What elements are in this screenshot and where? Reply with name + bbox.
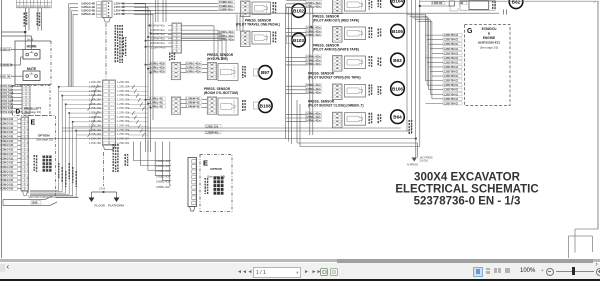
label rotated wire names on drops [58,163,77,187]
svg-text:0.5RrL-4Gb: 0.5RrL-4Gb [150,70,165,74]
svg-text:0.85BL-4Gb: 0.85BL-4Gb [156,159,171,163]
svg-text:1.25B-7B4 G1: 1.25B-7B4 G1 [444,75,460,78]
svg-text:1.25Y-4B: 1.25Y-4B [114,5,125,9]
wire chain drops L1 to L2 [237,15,243,32]
sensor R0 top (cut) [286,0,381,14]
svg-text:1.0RrL-4G: 1.0RrL-4G [150,105,163,109]
svg-text:2B: 2B [460,3,463,5]
svg-text:1.25B-7B4 G1: 1.25B-7B4 G1 [444,80,460,83]
svg-text:0.5RrL-4Gn: 0.5RrL-4Gn [306,115,321,119]
connector CN-B strip [97,1,113,22]
horn-mute enclosure [15,41,51,85]
label PRESS. SENSOR (BOOM CYL.BOTTOM) [204,87,238,95]
label ECM/DCU & ENGINE [478,27,500,50]
svg-text:1.25B-1B4: 1.25B-1B4 [117,141,130,145]
wire G comb spine verticals [426,15,432,99]
svg-text:0.5BR-4Gn: 0.5BR-4Gn [219,7,233,11]
svg-text:B103: B103 [293,38,304,43]
slider zoom [556,270,594,273]
button scroll left [0,264,5,272]
svg-text:1.25Y-4B: 1.25Y-4B [114,2,125,6]
svg-text:1.25B-1B4: 1.25B-1B4 [89,119,102,123]
svg-text:ENGINE: ENGINE [483,36,495,40]
svg-text:0.5W-C4 1B: 0.5W-C4 1B [1,149,14,152]
wire drop to press sensor note [416,139,418,158]
svg-text:0.5RrL-4Gb: 0.5RrL-4Gb [150,62,165,66]
svg-text:0.5RrW-4Gn: 0.5RrW-4Gn [151,41,166,45]
sensor R4 PILOT BUCKET CLOSE [286,111,381,127]
label PRESS. SENSOR (PILOT BUCKET OPEN)(NO TAPE) [308,72,361,80]
svg-text:1.25Y-4B: 1.25Y-4B [114,12,125,16]
box E OPTION right [200,155,232,212]
button view facing [493,267,502,275]
svg-text:0.5W-C4 1B: 0.5W-C4 1B [1,183,14,186]
connector E pin strip [21,117,29,191]
label PRESS. SENSOR (PILOT BUCKET CLOSE)(GREEN T) [308,100,364,108]
sensor R2 PILOT ARM IN [286,55,381,71]
wire right column bus verticals [286,4,313,144]
svg-text:0.5RrL-4Gn: 0.5RrL-4Gn [306,87,321,91]
wire right bus verticals [407,0,420,147]
svg-text:1.25BR-4Gb: 1.25BR-4Gb [206,131,220,134]
svg-text:1.25B-1B4: 1.25B-1B4 [89,80,102,84]
wire staircase to connector E right [133,142,171,186]
svg-text:0.5YG C4A: 0.5YG C4A [1,85,13,88]
wire nested bus bottom lines [2,128,420,147]
svg-text:0.5RrW-4Gn: 0.5RrW-4Gn [151,32,166,36]
svg-text:(PILOT BUCKET CLOSE) (GREEN..T: (PILOT BUCKET CLOSE) (GREEN..T) [308,104,364,108]
box D KNOB.LEFT [13,86,51,116]
wire G bundle to bus [407,15,432,22]
svg-text:0.5RrL-4Gn: 0.5RrL-4Gn [306,83,321,87]
svg-text:OPTION: OPTION [38,134,50,138]
wire nested bus left verticals [297,100,300,147]
svg-text:0.5YG C4A: 0.5YG C4A [1,96,13,99]
sensor PRESS SENSOR BOOM CYL BOTTOM [146,97,246,115]
svg-text:0.5YG C4A: 0.5YG C4A [1,111,13,114]
svg-text:1.25B-1B4: 1.25B-1B4 [89,102,102,106]
terminal B108 [259,99,273,113]
svg-text:1.25B-1B4: 1.25B-1B4 [89,132,102,136]
sensor PRESS SENSOR HYD FILTER [146,62,246,81]
svg-text:E: E [31,120,36,127]
svg-text:0.5RrL-4Gn: 0.5RrL-4Gn [219,37,234,41]
svg-text:1.0RrL-4G: 1.0RrL-4G [150,97,163,101]
ground FLOOR [89,198,106,208]
svg-text:0.85BL-4Gb: 0.85BL-4Gb [156,185,171,189]
svg-text:0.5W-C4 1B: 0.5W-C4 1B [1,157,14,160]
button zoom out [541,268,544,274]
svg-text:0.85GG-4B: 0.85GG-4B [81,9,95,13]
svg-text:D: D [16,109,21,116]
wire page left border [1,0,3,258]
svg-text:1.0RrW-4G: 1.0RrW-4G [186,105,200,109]
svg-text:1.0RrL-4G: 1.0RrL-4G [150,101,163,105]
wire to horn from left edge [2,31,26,33]
svg-text:0.5 B: 0.5 B [99,187,105,191]
wire to B62 connector [420,5,449,7]
terminal B97 [258,66,272,80]
svg-text:1.25B-1B4: 1.25B-1B4 [89,106,102,110]
scrollbar horizontal [0,259,600,262]
svg-text:0.85GG-4B: 0.85GG-4B [81,12,95,16]
svg-text:1.25B-1B4: 1.25B-1B4 [117,119,130,123]
label CN-B left wire names [69,2,96,17]
svg-text:1.25B-1B4: 1.25B-1B4 [117,132,130,136]
node junction press feed [415,138,417,140]
label wire 0.85L 5B [0,75,11,78]
label CN-C left wire names [89,80,102,145]
svg-text:B63: B63 [393,58,402,63]
svg-text:1.25B-1B4: 1.25B-1B4 [117,89,130,93]
svg-text:(See page 3/3): (See page 3/3) [24,110,41,114]
label PRESS. SENSOR (HYD.FILTER) [207,53,234,61]
svg-text:0.5W-C4 1B: 0.5W-C4 1B [1,144,14,147]
svg-text:1.25B-7B4 G1: 1.25B-7B4 G1 [444,52,460,55]
svg-text:0.5BR-4Gn: 0.5BR-4Gn [219,0,233,4]
svg-text:FLOOR: FLOOR [95,204,106,208]
wire frame corner bottom-right [569,229,599,258]
svg-text:1.25B-1B4: 1.25B-1B4 [117,106,130,110]
box E OPTION left [28,116,56,198]
wire mute terminal [11,75,23,77]
wire top border feed [420,0,598,2]
svg-text:1.25B-1B4: 1.25B-1B4 [117,102,130,106]
svg-text:1.25B-7B4 G1: 1.25B-7B4 G1 [444,57,460,60]
connector CN-A top-left [16,0,51,8]
svg-text:B62: B62 [512,0,521,5]
svg-text:0.5W-C4 1B: 0.5W-C4 1B [1,131,14,134]
svg-text:(PILOT ARM OUT) (RED TAPE): (PILOT ARM OUT) (RED TAPE) [313,19,359,23]
svg-text:0.85BL-4Gb: 0.85BL-4Gb [156,164,171,168]
svg-text:(PILOT BUCKET OPEN) (NO TAPE): (PILOT BUCKET OPEN) (NO TAPE) [308,76,361,80]
label harness callout rotated text [115,25,127,63]
connector D-side labels [0,85,22,114]
ground PLATFORM [108,198,125,208]
svg-text:0.5W-C4 1B: 0.5W-C4 1B [1,166,14,169]
svg-text:HORN: HORN [27,45,37,49]
label CN-D wire rows [145,24,172,50]
svg-text:1.25B-7B4 G1: 1.25B-7B4 G1 [444,102,460,105]
mute inner box [23,71,40,81]
label G wire rows [426,34,463,106]
svg-text:0.5W-C4 1B: 0.5W-C4 1B [1,175,14,178]
svg-text:1.25B-1B4: 1.25B-1B4 [89,124,102,128]
svg-text:0.5RrW-4Gn: 0.5RrW-4Gn [151,24,166,28]
wire page right border [597,1,599,229]
svg-text:0.85BL-4Gb: 0.85BL-4Gb [156,169,171,173]
wire CN-D right bends [182,26,227,60]
label SAE J1939 rotated [34,155,35,157]
svg-text:0.5RrW-4Gn: 0.5RrW-4Gn [151,37,166,41]
label rotated 32C 2B4 [492,1,493,3]
connector small B62 chain [449,1,458,11]
svg-text:B106: B106 [392,86,403,91]
sensor R3 PILOT BUCKET OPEN [286,83,381,99]
wire feeds L3 L4 taps [145,64,152,109]
wire crossing slashes right [128,85,148,137]
svg-text:1.25B-1B4: 1.25B-1B4 [117,93,130,97]
svg-text:0.5YG C4A: 0.5YG C4A [1,107,13,110]
label wire 0.85B 5A [0,48,11,51]
button prev page [248,269,253,275]
svg-text:0.85BW 5B: 0.85BW 5B [1,65,13,67]
label wire 0.85R-Y5 (rotated) [24,13,41,27]
wire junction drops into horn [24,32,26,50]
sensor PRESS SENSOR PILOT TRAVEL ONE PEDAL [219,0,277,16]
wire vertical drops to labels [30,87,76,197]
svg-text:0.5W-C4 1B: 0.5W-C4 1B [1,127,14,130]
svg-text:0.5RrL-4Gn: 0.5RrL-4Gn [306,62,321,66]
svg-text:0.5YG C4A: 0.5YG C4A [1,100,13,103]
svg-text:0.5RrL-4Gn: 0.5RrL-4Gn [306,119,321,123]
svg-text:1.25B-1B4: 1.25B-1B4 [89,85,102,89]
label 1.25BL-C2b [205,125,221,135]
sensor PRESS SENSOR 2 [219,30,277,46]
svg-text:OPTION: OPTION [210,167,222,171]
wire dash-dot drop to ground [103,152,105,186]
svg-text:1.0RrW-4G: 1.0RrW-4G [186,101,200,105]
svg-text:0.85B 5A: 0.85B 5A [1,48,11,51]
svg-text:1.25B-1B4: 1.25B-1B4 [117,124,130,128]
sensor R1 PILOT ARM OUT [286,26,381,42]
svg-text:1.25B-7B4 G1: 1.25B-7B4 G1 [444,48,460,51]
harness bracket 13HB [3,196,57,206]
svg-text:0.85BL-4Gb: 0.85BL-4Gb [156,174,171,178]
svg-text:0.5RrL-4Gn: 0.5RrL-4Gn [219,34,234,38]
svg-text:0.5W-C4 1B: 0.5W-C4 1B [1,162,14,165]
svg-text:0.5RrL-4Gn: 0.5RrL-4Gn [306,55,321,59]
button rotate ccw [320,268,328,276]
input page number [253,267,301,278]
svg-text:1.25B-7B4 G1: 1.25B-7B4 G1 [444,71,460,74]
terminal B102 [292,4,306,18]
scrollbar vertical arrow [592,1,597,8]
svg-text:(PILOT ARM IN) (WHITE TAPE): (PILOT ARM IN) (WHITE TAPE) [313,48,359,52]
node junction horn feed [24,31,26,33]
svg-text:2/3 (5V): 2/3 (5V) [420,160,429,163]
label CN-B right wire names [114,2,154,17]
wire long feed line [155,12,499,14]
svg-text:1.25B-1B4: 1.25B-1B4 [117,85,130,89]
svg-text:0.5RrL-4Gn: 0.5RrL-4Gn [306,111,321,115]
label rotated OK-PA [205,178,206,180]
connector CN-D left [172,23,182,53]
svg-text:(PILOT TRAVEL ONE PEDAL): (PILOT TRAVEL ONE PEDAL) [236,23,280,27]
svg-text:1.25B-1B4: 1.25B-1B4 [89,111,102,115]
wire verticals right of CN-B [156,0,159,22]
connector D pin strip [22,85,30,114]
wire bus verticals from CN-B [69,4,74,87]
wire central bus verticals [146,4,154,152]
svg-text:1.25RrY-4Gn: 1.25RrY-4Gn [151,46,167,50]
svg-text:0.5RrL-4Gn: 0.5RrL-4Gn [186,62,201,66]
svg-text:5A 5B: 5A 5B [27,39,34,42]
connector CN-C tail [103,145,116,150]
svg-text:1.25B-1B4: 1.25B-1B4 [117,80,130,84]
button rotate cw [330,268,338,276]
svg-text:0.5W-C4 1B: 0.5W-C4 1B [1,140,14,143]
svg-text:1.25BL-C2b: 1.25BL-C2b [206,126,219,128]
svg-text:1.25Y-4B: 1.25Y-4B [114,9,125,13]
connector pin grid icon E [43,156,52,172]
label wire 1.0B6 GB [432,2,446,5]
wire harness from CN-A [26,8,42,31]
svg-text:0.85GG-4B: 0.85GG-4B [81,5,95,9]
svg-text:300X4 EXCAVATOR: 300X4 EXCAVATOR [414,172,521,184]
wire hatch marks [504,10,507,15]
svg-text:0.85GG-4B: 0.85GG-4B [81,2,95,6]
label rotated 0.5B bottom right [409,120,410,122]
svg-text:B102: B102 [293,8,304,13]
button first page [237,269,247,275]
wire bus rows to vertical drops [58,86,103,135]
svg-text:MUTE: MUTE [27,67,37,71]
svg-text:ELECTRICAL SCHEMATIC: ELECTRICAL SCHEMATIC [395,184,538,196]
svg-text:B64: B64 [393,115,402,120]
svg-text:0.5W-C4 1B: 0.5W-C4 1B [1,122,14,125]
label OPTION (See page 3/3) [36,134,53,142]
button scroll right [596,261,598,268]
svg-text:(KSR15320-EZ): (KSR15320-EZ) [478,41,500,45]
svg-text:B108: B108 [260,104,271,109]
svg-text:0.85BL-4Gb: 0.85BL-4Gb [156,180,171,184]
svg-text:0.5RrL-4Gn: 0.5RrL-4Gn [306,26,321,30]
svg-text:B97: B97 [261,70,270,75]
svg-text:1.25B-1B4: 1.25B-1B4 [89,115,102,119]
wire verticals into CN-D [163,0,166,22]
label PRESS. SENSOR (PILOT ARM IN)(WHITE TAPE) [313,44,359,52]
svg-text:13HB: 13HB [32,202,38,204]
svg-text:0.5BR-4Gn: 0.5BR-4Gn [219,4,233,8]
svg-text:0.5YG C4A: 0.5YG C4A [1,104,13,107]
svg-text:1.25B-1B4: 1.25B-1B4 [89,141,102,145]
horn inner box [23,50,40,60]
wire ground bus [92,191,117,197]
svg-text:0.5W-C4 1B: 0.5W-C4 1B [1,170,14,173]
label E2 wire rows [156,159,171,189]
svg-text:52378736-0 EN - 1/3: 52378736-0 EN - 1/3 [414,196,521,208]
svg-text:(See page 3/3): (See page 3/3) [36,138,53,142]
connector pin grid icon E2 [214,177,224,195]
svg-text:1.25B-7B4 G1: 1.25B-7B4 G1 [444,39,460,42]
label OPTION (See page 3/3) right [207,167,226,179]
svg-text:0.5W-C4 1B: 0.5W-C4 1B [1,136,14,139]
svg-text:1.25B-1B4: 1.25B-1B4 [117,115,130,119]
connector E2 pin strip [188,158,197,212]
svg-text:0.5RrL-4Gn: 0.5RrL-4Gn [306,90,321,94]
wire top feeds to sensor L1 [121,3,218,14]
svg-text:0.5RrL-4Gn: 0.5RrL-4Gn [306,58,321,62]
svg-text:0.5W-C4 1B: 0.5W-C4 1B [1,188,14,191]
svg-text:ECM/DCU: ECM/DCU [482,27,498,31]
connector E-side labels [0,118,21,191]
svg-text:1.25B-7B4 G1: 1.25B-7B4 G1 [444,43,460,46]
svg-text:G: G [467,28,473,35]
wire dash-dot drop to central connector [105,23,107,80]
label wire 0.85B-W 5B [0,63,11,66]
svg-text:KNOB.LEFT: KNOB.LEFT [24,107,41,111]
connector CN-C central [103,80,116,145]
label rotated 34A sensor block [169,53,170,55]
label KNOB.LEFT (See page 3/3) [24,107,41,115]
label CN-C right wire names [117,80,130,145]
svg-text:1.0B6 GB: 1.0B6 GB [432,3,443,5]
svg-text:E: E [203,159,208,168]
wire horn terminal [11,49,23,51]
relay body top right [460,0,495,10]
svg-text:(BOOM CYL.BOTTOM): (BOOM CYL.BOTTOM) [204,91,238,95]
svg-text:1.25B-1B4: 1.25B-1B4 [117,111,130,115]
svg-text:1.0RrW-4G: 1.0RrW-4G [186,97,200,101]
svg-text:PLATFORM: PLATFORM [108,204,125,208]
sensor AI PRESS note [407,157,433,167]
svg-text:AI PRESS: AI PRESS [407,164,418,167]
svg-text:1.25B-7B4 G1: 1.25B-7B4 G1 [444,84,460,87]
svg-text:1.25B-1B4: 1.25B-1B4 [89,89,102,93]
label PRESS. SENSOR (PILOT ARM OUT)(RED TAPE) [313,15,359,23]
svg-text:1.25B-7B4 G1: 1.25B-7B4 G1 [444,98,460,101]
svg-text:1.25B-7B4 G1: 1.25B-7B4 G1 [444,66,460,69]
button last page [312,269,322,275]
svg-text:1.25B-7B4 G1: 1.25B-7B4 G1 [444,89,460,92]
svg-text:0.5YG C4A: 0.5YG C4A [1,89,13,92]
svg-text:0.5RrL-4Gn: 0.5RrL-4Gn [186,70,201,74]
button view cover [504,267,512,275]
svg-text:1.25B-7B4 G1: 1.25B-7B4 G1 [444,34,460,37]
svg-text:0.5W-C4 1B: 0.5W-C4 1B [1,179,14,182]
button view single selected [473,267,483,277]
button view continuous [484,267,492,275]
button next page [304,269,309,275]
box G ECM dashed [465,25,511,106]
svg-text:0.5RrL-4Gn: 0.5RrL-4Gn [306,1,321,5]
label zoom percent [520,268,535,274]
svg-text:0.5W-C4 1B: 0.5W-C4 1B [1,153,14,156]
svg-text:B104: B104 [392,0,403,3]
label J/C rotated block [113,144,129,172]
terminal B62 [509,0,523,9]
svg-text:0.5RrL-4Gn: 0.5RrL-4Gn [219,30,234,34]
wire feeds to sensor L2 [145,32,222,41]
svg-text:(HYD.FILTER): (HYD.FILTER) [207,57,228,61]
svg-text:0.5RrL-4Gn: 0.5RrL-4Gn [306,33,321,37]
wire horn feed 2 [2,35,32,37]
button zoom in [596,268,600,276]
svg-text:1.25B-1B4: 1.25B-1B4 [89,98,102,102]
terminal B103 [292,33,306,47]
svg-text:0.5RrW-4Gn: 0.5RrW-4Gn [151,28,166,32]
svg-text:1.25B-1B4: 1.25B-1B4 [117,98,130,102]
node junction top right bus [419,5,421,7]
wire horn terminal 2 [11,57,23,65]
svg-text:0.5RrL-4Gb: 0.5RrL-4Gb [150,66,165,70]
svg-text:(See page 2/3): (See page 2/3) [480,46,499,50]
svg-text:1.25B-7B4 G1: 1.25B-7B4 G1 [444,61,460,64]
label 2B box [460,2,467,5]
svg-text:B105: B105 [392,29,403,34]
svg-text:0.5W-C4 1B: 0.5W-C4 1B [1,118,14,121]
svg-text:0.5YG C4A: 0.5YG C4A [1,93,13,96]
svg-text:0.5RrL-4Gn: 0.5RrL-4Gn [306,29,321,33]
svg-text:1.25B-7B4 G1: 1.25B-7B4 G1 [444,93,460,96]
label PRESS. SENSOR (PILOT TRAVEL ONE PEDAL) [236,19,280,27]
svg-text:1.25B-1B4: 1.25B-1B4 [89,93,102,97]
svg-text:0.85L 5B: 0.85L 5B [1,77,11,79]
svg-text:0.5RrL-4Gn: 0.5RrL-4Gn [306,4,321,8]
wire crossing slashes left [88,85,99,137]
svg-text:0.5RrL-4Gn: 0.5RrL-4Gn [186,66,201,70]
